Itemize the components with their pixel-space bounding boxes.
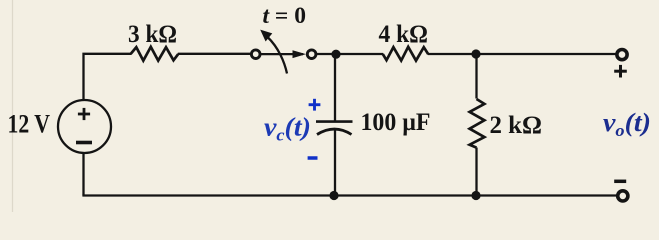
- wire 3k resistor to switch left contact: [178, 53, 252, 55]
- vc plus sign blue: [309, 99, 321, 111]
- switch right contact: [307, 50, 316, 59]
- junction node top 2k: [471, 49, 480, 58]
- wire capacitor branch lower: [334, 130, 336, 196]
- resistor R 4k zigzag: [383, 47, 428, 61]
- svg-text:4 kΩ: 4 kΩ: [379, 21, 429, 48]
- svg-text:12 V: 12 V: [8, 109, 51, 138]
- svg-text:100 µF: 100 µF: [361, 109, 431, 136]
- svg-text:3 kΩ: 3 kΩ: [128, 21, 177, 48]
- voltage source 12V circle: [58, 100, 111, 153]
- output plus sign: [614, 65, 627, 78]
- capacitor C bottom curved plate: [317, 129, 352, 134]
- junction node bottom 2k: [471, 191, 480, 200]
- wire capacitor branch upper: [334, 54, 336, 121]
- vc minus sign blue: [308, 156, 318, 160]
- wire 2k branch upper: [475, 54, 477, 99]
- wire top from source to switch left contact: [84, 54, 132, 100]
- wire 2k branch lower: [475, 148, 477, 196]
- wire bottom rail: [82, 194, 617, 196]
- switch motion arc: [268, 37, 288, 74]
- capacitor C top plate: [316, 120, 353, 123]
- output minus sign: [614, 180, 626, 184]
- junction node bottom capacitor: [329, 191, 338, 200]
- junction node top capacitor: [331, 50, 340, 59]
- wire left vertical below source: [82, 154, 84, 196]
- voltage source plus sign: [78, 108, 90, 120]
- output terminal top: [617, 50, 627, 60]
- svg-text:t = 0: t = 0: [263, 3, 307, 29]
- switch left contact: [251, 50, 260, 59]
- output terminal bottom: [618, 191, 628, 201]
- resistor R 3k zigzag: [131, 47, 179, 61]
- svg-text:vc(t): vc(t): [264, 113, 311, 145]
- svg-text:2 kΩ: 2 kΩ: [490, 110, 543, 139]
- wire 4k resistor to output terminal: [428, 53, 617, 55]
- switch motion arrowhead: [260, 30, 272, 42]
- voltage source minus sign: [76, 141, 92, 145]
- switch blade arrowhead: [293, 50, 307, 58]
- svg-text:vo(t): vo(t): [603, 108, 651, 140]
- wire switch blade: [260, 53, 304, 55]
- wire top from switch right contact to output terminal: [316, 53, 384, 55]
- resistor R 2k zigzag: [470, 99, 485, 148]
